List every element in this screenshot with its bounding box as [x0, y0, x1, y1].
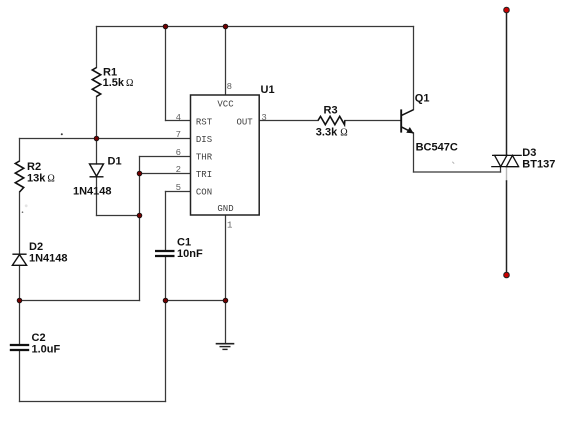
wire: TRI pin2 horizontal — [140, 173, 191, 175]
svg-text:1: 1 — [227, 221, 232, 231]
svg-text:6: 6 — [176, 148, 181, 158]
wire: Q1 collector up to rail — [413, 27, 415, 110]
svg-text:C2: C2 — [32, 332, 46, 344]
svg-text:1N4148: 1N4148 — [73, 185, 112, 197]
node: triac top terminal — [504, 7, 510, 13]
junction: C1 / ground net — [163, 298, 168, 303]
resistor R1 — [92, 68, 100, 97]
svg-text:VCC: VCC — [217, 100, 234, 110]
capacitor C2 — [10, 345, 29, 350]
wire: C1 bottom to ground net — [165, 257, 167, 301]
wire: ground net horizontal — [166, 300, 226, 302]
wire: triac bottom terminal vertical — [506, 181, 508, 275]
svg-text:4: 4 — [176, 113, 181, 123]
transistor Q1 — [401, 109, 413, 133]
wire: D1 bottom horizontal to TRI net — [97, 215, 140, 217]
wire: D1 cathode down — [96, 177, 98, 216]
resistor R3 — [318, 116, 345, 124]
svg-text:C1: C1 — [177, 237, 191, 249]
wire: rail down to R1 top — [96, 27, 98, 68]
svg-text:BT137: BT137 — [522, 159, 555, 171]
stray mark small — [22, 211, 24, 213]
svg-text:3: 3 — [261, 113, 266, 123]
svg-text:1.0uF: 1.0uF — [32, 344, 61, 356]
wire: triac gate stub — [500, 167, 502, 172]
stray mark — [61, 133, 63, 135]
svg-text:D3: D3 — [522, 147, 536, 159]
wire: RST pin4 horizontal — [166, 120, 191, 122]
junction: rail / RST drop — [163, 24, 168, 29]
stray mark tick — [452, 162, 454, 164]
wire: vertical THR/TRI net — [139, 157, 141, 301]
wire: bottom up to ground node — [165, 301, 167, 402]
wire: R1 bottom to DIS node — [96, 97, 98, 165]
wire: R2 bottom to D2 — [19, 192, 21, 254]
wire: triac bottom gray stub — [506, 167, 508, 181]
wire: bottom horizontal — [20, 401, 166, 403]
junction: DIS / R1-D1 — [94, 136, 99, 141]
svg-text:D2: D2 — [29, 241, 43, 253]
svg-text:1N4148: 1N4148 — [29, 253, 68, 265]
svg-text:THR: THR — [196, 152, 213, 162]
junction: D1 bottom / TRI vertical — [137, 213, 142, 218]
junction: D2 node — [17, 298, 22, 303]
wire: rail down to VCC pin8 — [225, 27, 227, 96]
wire: node to C2 top — [19, 301, 21, 345]
diode D2 — [12, 254, 26, 265]
svg-text:RST: RST — [196, 117, 213, 127]
svg-text:R3: R3 — [324, 105, 338, 117]
capacitor C1 — [155, 251, 175, 256]
wire: D2 anode down to node — [19, 266, 21, 301]
svg-text:8: 8 — [227, 82, 232, 92]
node: triac bottom terminal — [504, 272, 510, 278]
wire: CON down to C1 — [165, 192, 167, 251]
ground symbol — [216, 344, 235, 350]
junction: TRI net — [137, 171, 142, 176]
wire: CON pin5 horizontal — [166, 191, 191, 193]
svg-text:5: 5 — [176, 183, 181, 193]
svg-text:TRI: TRI — [196, 170, 212, 180]
resistor R2 — [15, 161, 23, 192]
wire: rail down to RST — [165, 27, 167, 121]
wire: C2 bottom down — [19, 351, 21, 402]
svg-text:2: 2 — [176, 165, 181, 175]
triac D3 — [491, 155, 522, 166]
wire: THR pin6 horizontal — [140, 156, 191, 158]
junction: rail / VCC drop — [223, 24, 228, 29]
svg-text:OUT: OUT — [236, 117, 253, 127]
stray mark faint — [25, 204, 28, 207]
svg-text:U1: U1 — [261, 84, 275, 96]
wire: GND pin1 down to ground — [225, 215, 227, 344]
svg-text:BC547C: BC547C — [416, 142, 458, 154]
svg-text:3.3k Ω: 3.3k Ω — [316, 127, 348, 139]
op-amp/timer U1 box — [191, 95, 260, 215]
wire: R3 to Q1 base — [345, 120, 401, 122]
wire: Q1 emitter down — [413, 133, 415, 172]
svg-text:DIS: DIS — [196, 135, 212, 145]
junction: GND drop / ground net — [223, 298, 228, 303]
svg-text:D1: D1 — [108, 156, 122, 168]
svg-text:1.5k Ω: 1.5k Ω — [103, 77, 134, 89]
svg-text:7: 7 — [176, 130, 181, 140]
wire: OUT pin3 to R3 — [260, 120, 319, 122]
wire: DIS pin7 horizontal — [20, 138, 191, 140]
wire: top power rail — [97, 26, 414, 28]
diode D1 — [90, 164, 104, 177]
svg-text:Q1: Q1 — [415, 92, 430, 104]
wire: left drop to R2 — [19, 139, 21, 162]
wire: left node horizontal — [20, 300, 140, 302]
svg-text:GND: GND — [217, 204, 233, 214]
svg-text:13k Ω: 13k Ω — [27, 173, 55, 185]
svg-text:CON: CON — [196, 187, 212, 197]
wire: emitter to triac gate — [414, 171, 501, 173]
wire: triac top terminal vertical — [506, 10, 508, 155]
svg-text:10nF: 10nF — [177, 248, 203, 260]
svg-text:R2: R2 — [27, 161, 41, 173]
